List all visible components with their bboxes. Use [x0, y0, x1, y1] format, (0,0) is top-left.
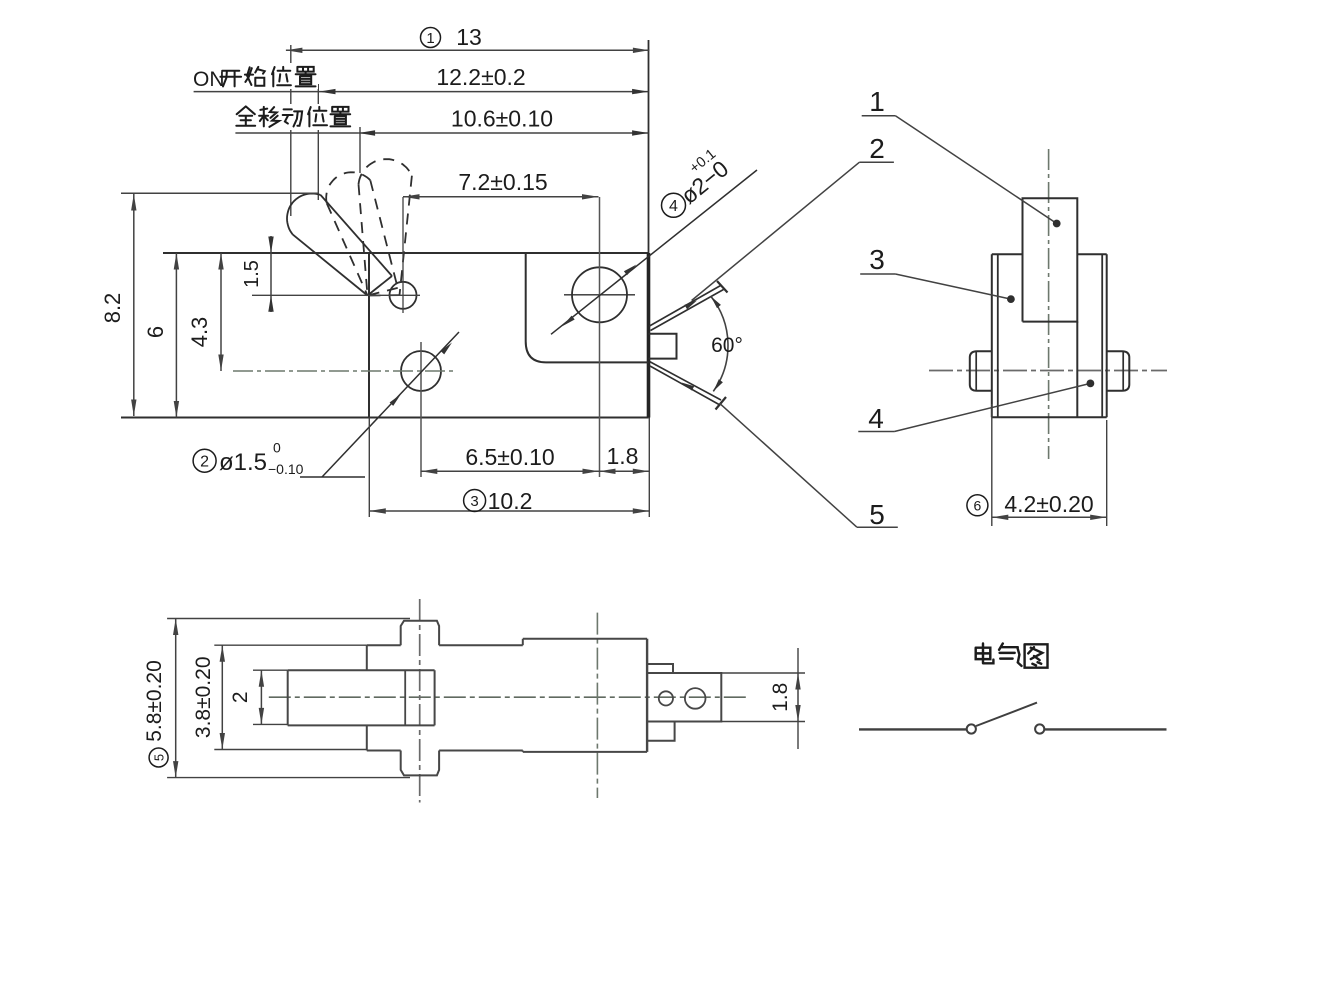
svg-text:4.3: 4.3: [187, 317, 212, 348]
svg-text:1: 1: [869, 86, 885, 117]
svg-text:2: 2: [229, 691, 252, 703]
svg-text:4: 4: [868, 403, 884, 434]
lever actuator dashed position 3: [359, 159, 412, 295]
dimension 2 bottom view: [229, 670, 288, 724]
hole phi2 top right: [564, 197, 635, 477]
label full travel position: [232, 104, 356, 130]
svg-text:13: 13: [456, 24, 482, 50]
label 4 text phi2 tolerance rotated: [662, 146, 734, 217]
part label 4 with leader: [858, 380, 1094, 435]
switch symbol right contact circle: [1035, 724, 1044, 733]
bottom view centerlines: [269, 599, 748, 803]
front view right tab: [649, 334, 677, 359]
part label 1 with leader: [862, 86, 1061, 227]
svg-text:10.2: 10.2: [488, 488, 533, 514]
svg-text:2: 2: [869, 133, 885, 164]
lever actuator dashed position 2: [326, 172, 398, 295]
dimension 4.2 side view: [967, 404, 1107, 526]
dimension 10.2 bottom: [369, 418, 649, 518]
svg-text:1.8: 1.8: [769, 683, 792, 712]
small pivot hole: [252, 197, 420, 313]
dimension 1.5 vertical outside arrows: [241, 236, 274, 312]
svg-text:1.5: 1.5: [241, 260, 263, 288]
dimension 6.5 bottom: [421, 444, 599, 474]
dimension 12.2 leader and line: [194, 64, 649, 94]
dimension 3.8 bottom view: [192, 645, 367, 749]
lower hole phi1.5: [233, 342, 456, 477]
svg-text:3.8±0.20: 3.8±0.20: [192, 657, 215, 739]
front view upper terminal prong (double line): [650, 281, 728, 331]
part label 5 with leader to lower prong: [720, 403, 898, 530]
label 2 text phi1.5 tolerance: [193, 440, 304, 478]
dimension 1.8 bottom view: [721, 648, 805, 749]
svg-text:60°: 60°: [711, 334, 743, 357]
front view inner pocket step: [526, 253, 649, 362]
lever actuator solid position: [287, 194, 392, 296]
dimension 13 top: [286, 24, 650, 53]
svg-text:6.5±0.10: 6.5±0.10: [465, 444, 554, 470]
60 degree text: [711, 334, 743, 357]
bottom view housing outline: [367, 639, 523, 752]
side view button part 1: [1023, 198, 1078, 321]
bottom view terminal plate with holes: [647, 673, 721, 722]
svg-text:5: 5: [869, 499, 885, 530]
part label 3 with leader: [860, 244, 1015, 303]
svg-text:3: 3: [869, 244, 885, 275]
svg-text:1.8: 1.8: [607, 443, 639, 469]
label 4 leader slash through phi2 hole: [551, 170, 757, 334]
svg-text:1: 1: [426, 30, 434, 47]
label 2 leader slash through lower hole: [300, 332, 459, 477]
svg-text:8.2: 8.2: [100, 293, 125, 324]
svg-text:ON: ON: [193, 68, 225, 91]
svg-text:5: 5: [151, 754, 166, 761]
dimension 10.6 leader and line: [235, 106, 648, 136]
dimension 5.8 bottom view: [143, 619, 410, 778]
bottom view terminal steps: [647, 664, 675, 741]
switch symbol left contact circle: [967, 724, 976, 733]
switch symbol left wire: [859, 728, 967, 730]
bottom view lever slot: [288, 670, 435, 725]
svg-text:6: 6: [974, 497, 982, 513]
svg-text:4: 4: [669, 198, 678, 215]
electrical diagram title: [976, 644, 1048, 668]
part label 2 with leader to prong: [692, 133, 894, 301]
bottom view right body: [523, 639, 647, 752]
front view: extension line verticals top dims: [291, 40, 649, 253]
dimension 4.3 vertical: [187, 253, 224, 371]
svg-text:−0.10: −0.10: [268, 461, 304, 477]
side view centerlines: [929, 149, 1167, 459]
svg-text:ø1.5: ø1.5: [219, 449, 267, 476]
front view body outline: [121, 253, 649, 418]
side view body part 3: [992, 254, 1107, 417]
svg-text:3: 3: [470, 493, 478, 510]
switch symbol right wire: [1045, 728, 1167, 730]
svg-text:2: 2: [200, 454, 209, 471]
dimension 1.8 bottom right: [599, 443, 649, 474]
svg-text:10.6±0.10: 10.6±0.10: [451, 106, 553, 132]
svg-text:12.2±0.2: 12.2±0.2: [436, 64, 525, 90]
svg-text:5.8±0.20: 5.8±0.20: [143, 660, 166, 742]
label ON start position: [190, 63, 318, 91]
switch symbol lever: [976, 703, 1037, 726]
front view lower terminal prong (double line): [650, 362, 727, 410]
svg-text:7.2±0.15: 7.2±0.15: [458, 169, 547, 195]
dimension 7.2: [403, 169, 599, 200]
side view right mounting tab: [1107, 351, 1130, 391]
svg-text:6: 6: [143, 326, 168, 338]
svg-text:4.2±0.20: 4.2±0.20: [1004, 491, 1093, 517]
dimension 6 vertical: [143, 253, 179, 418]
bottom view bottom pivot boss: [401, 751, 439, 776]
side view left mounting tab: [970, 351, 992, 391]
bottom view top pivot boss: [401, 621, 439, 646]
dimension 8.2 vertical: [100, 193, 318, 416]
60 degree angle arc with arrows: [711, 296, 728, 391]
svg-text:0: 0: [273, 440, 281, 456]
